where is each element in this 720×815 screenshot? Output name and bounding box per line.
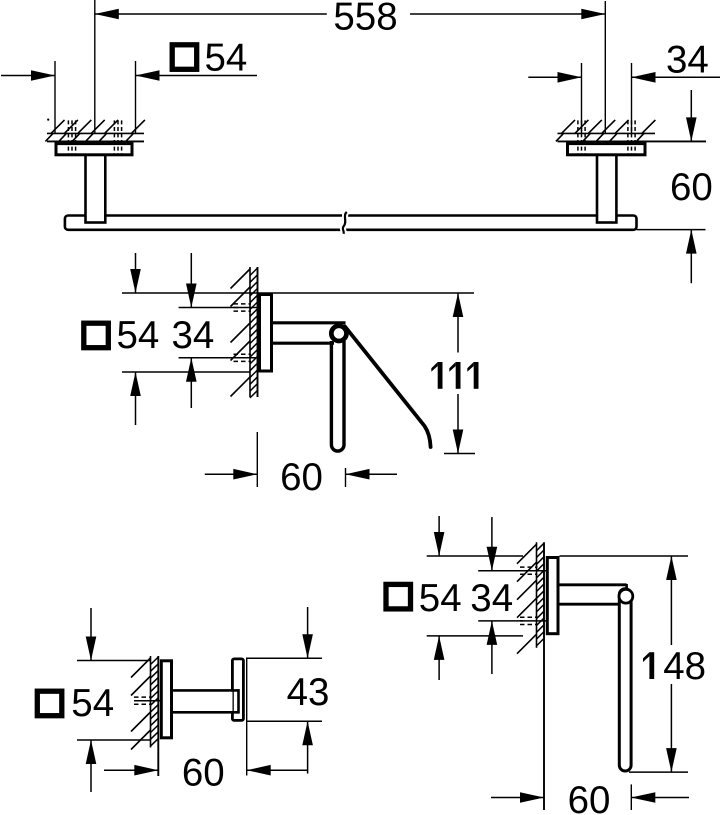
svg-text:34: 34 (172, 314, 215, 357)
svg-text:54: 54 (71, 682, 114, 725)
svg-text:34: 34 (666, 39, 709, 82)
svg-text:60: 60 (670, 166, 713, 209)
svg-text:60: 60 (182, 751, 225, 794)
svg-text:48: 48 (663, 645, 706, 688)
svg-text:34: 34 (470, 577, 513, 620)
svg-text:60: 60 (280, 456, 323, 499)
svg-text:54: 54 (419, 577, 462, 620)
svg-text:60: 60 (568, 779, 611, 815)
svg-text:43: 43 (287, 671, 330, 714)
svg-text:54: 54 (117, 314, 160, 357)
svg-text:54: 54 (205, 36, 248, 79)
svg-text:558: 558 (333, 0, 397, 39)
